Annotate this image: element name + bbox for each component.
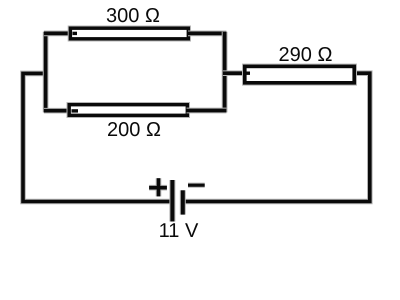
- battery V1 positive plate (long): [169, 180, 175, 222]
- wire: overshoot nub of left stub inside R3: [247, 71, 251, 74]
- wire: bottom branch left stub: [44, 108, 71, 114]
- wire: right-inner vertical joining parallel branches at node A: [222, 32, 228, 113]
- svg-text:11 V: 11 V: [159, 220, 199, 242]
- wire: junction at node B, left outer vertical, bottom run to battery positive plate: [23, 73, 171, 201]
- wire: top branch left stub: [44, 31, 71, 37]
- wire: right stub from R3, right outer vertical, bottom run to battery negative plate: [184, 73, 370, 201]
- wire: bottom branch right stub: [187, 108, 227, 114]
- battery polarity plus sign: [149, 178, 167, 196]
- resistor R2 200 ohm (bottom parallel branch): [69, 105, 187, 116]
- wire: overshoot nub of left stub inside R2: [72, 109, 79, 112]
- wire: node A horizontal to series resistor R3: [223, 70, 247, 76]
- svg-text:300 Ω: 300 Ω: [106, 5, 160, 27]
- svg-text:200 Ω: 200 Ω: [107, 119, 161, 141]
- resistor R3 290 ohm (series resistor): [245, 66, 354, 82]
- wire: top branch right stub: [188, 31, 226, 37]
- resistor R1 300 ohm (top parallel branch): [70, 28, 188, 39]
- wire: overshoot nub of left stub inside R1: [73, 32, 78, 35]
- battery V1 negative plate (short): [180, 190, 186, 214]
- wire: inner-left vertical joining the two parallel branches: [43, 32, 49, 113]
- battery polarity minus sign: [188, 183, 205, 188]
- svg-text:290 Ω: 290 Ω: [279, 44, 333, 66]
